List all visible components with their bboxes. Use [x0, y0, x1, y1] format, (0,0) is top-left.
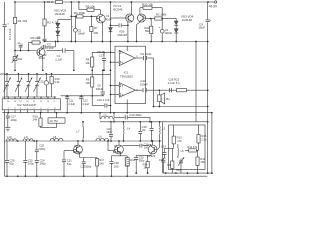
svg-text:200p: 200p	[40, 162, 47, 166]
svg-text:B1: B1	[166, 97, 170, 101]
svg-text:300p: 300p	[85, 164, 92, 168]
svg-text:BC546: BC546	[113, 7, 122, 11]
svg-text:L4: L4	[127, 127, 131, 131]
svg-text:10.7M: 10.7M	[49, 119, 58, 123]
svg-text:L5: L5	[181, 149, 185, 153]
svg-text:82: 82	[142, 128, 146, 132]
svg-text:R3 20k: R3 20k	[31, 36, 41, 40]
svg-text:IC2 SA614AP: IC2 SA614AP	[17, 103, 36, 107]
svg-text:100p: 100p	[11, 118, 18, 122]
svg-text:L1: L1	[104, 112, 108, 116]
svg-text:C1923: C1923	[147, 154, 156, 158]
svg-text:24k: 24k	[33, 118, 38, 122]
svg-text:17k: 17k	[177, 139, 182, 143]
svg-text:+: +	[209, 18, 211, 22]
svg-text:200p: 200p	[28, 162, 35, 166]
svg-text:5.6k: 5.6k	[54, 80, 60, 84]
svg-text:100uF: 100uF	[96, 87, 104, 91]
svg-text:300p: 300p	[139, 159, 145, 163]
svg-text:2.2uF: 2.2uF	[68, 102, 75, 106]
svg-text:L6: L6	[99, 135, 103, 139]
svg-text:TDA2822: TDA2822	[120, 74, 133, 78]
svg-text:C15: C15	[176, 168, 181, 172]
svg-text:R18: R18	[130, 158, 135, 162]
svg-text:V7: V7	[114, 144, 118, 148]
svg-text:43k: 43k	[200, 160, 205, 164]
svg-text:100nF: 100nF	[164, 31, 172, 35]
svg-text:10k: 10k	[85, 61, 90, 65]
svg-text:190p: 190p	[106, 130, 113, 134]
svg-text:R11 47k: R11 47k	[187, 145, 198, 149]
svg-text:220p: 220p	[0, 72, 6, 76]
svg-text:240: 240	[99, 161, 104, 165]
svg-text:C13 300p: C13 300p	[129, 113, 142, 117]
svg-text:C8: C8	[97, 83, 101, 87]
svg-text:1N4148: 1N4148	[117, 33, 127, 37]
svg-text:430: 430	[167, 164, 172, 167]
svg-text:C4: C4	[57, 54, 61, 58]
svg-text:R5 2k: R5 2k	[47, 0, 54, 4]
svg-text:C16 4.7uF: C16 4.7uF	[97, 98, 110, 102]
svg-text:R8: R8	[86, 58, 90, 62]
svg-text:BF981: BF981	[73, 150, 82, 154]
svg-text:0.1uF 5.1: 0.1uF 5.1	[168, 81, 180, 85]
svg-text:200: 200	[93, 31, 98, 35]
svg-text:L9: L9	[24, 135, 28, 139]
svg-text:1N4148: 1N4148	[54, 12, 65, 16]
svg-text:100uF: 100uF	[140, 83, 149, 87]
svg-text:R1 20k: R1 20k	[18, 19, 28, 23]
svg-text:R9: R9	[86, 78, 90, 82]
svg-text:1N4148: 1N4148	[182, 18, 193, 22]
svg-text:10k: 10k	[18, 57, 23, 61]
svg-text:9014: 9014	[39, 56, 46, 60]
svg-text:500p: 500p	[39, 147, 46, 151]
svg-text:+: +	[7, 22, 9, 26]
svg-text:10k: 10k	[85, 81, 90, 85]
svg-text:51p: 51p	[67, 162, 72, 166]
svg-text:100nF: 100nF	[77, 32, 85, 36]
svg-text:10uF: 10uF	[198, 26, 205, 30]
svg-text:2.2uF: 2.2uF	[83, 102, 90, 106]
svg-text:51p: 51p	[9, 162, 14, 166]
svg-text:C11: C11	[69, 98, 74, 102]
svg-text:V8: V8	[148, 143, 152, 147]
svg-text:L8: L8	[53, 135, 57, 139]
svg-text:L10: L10	[7, 135, 12, 139]
svg-text:C2: C2	[20, 43, 24, 47]
svg-text:50k: 50k	[145, 29, 150, 33]
svg-text:200: 200	[114, 164, 119, 168]
svg-text:R2 130k: R2 130k	[156, 12, 167, 16]
svg-text:R6 150k: R6 150k	[74, 11, 85, 15]
svg-text:C17: C17	[99, 54, 104, 58]
svg-text:C12: C12	[39, 80, 44, 84]
svg-text:+6-9V: +6-9V	[209, 5, 218, 9]
svg-text:R18: R18	[55, 77, 60, 81]
svg-text:2.2k: 2.2k	[201, 137, 207, 141]
svg-text:2.2uF: 2.2uF	[55, 58, 62, 62]
svg-text:R20 10k: R20 10k	[142, 2, 153, 6]
svg-text:C1 47uF: C1 47uF	[8, 28, 12, 40]
svg-text:C12: C12	[83, 98, 88, 102]
svg-text:R7: R7	[94, 26, 98, 30]
svg-text:C9 10uF: C9 10uF	[140, 52, 151, 56]
svg-text:C21: C21	[67, 159, 72, 163]
svg-text:R5 10k: R5 10k	[86, 5, 96, 9]
svg-text:L7: L7	[76, 130, 80, 134]
svg-text:2.2uF: 2.2uF	[46, 46, 53, 50]
svg-text:C16: C16	[159, 158, 164, 162]
